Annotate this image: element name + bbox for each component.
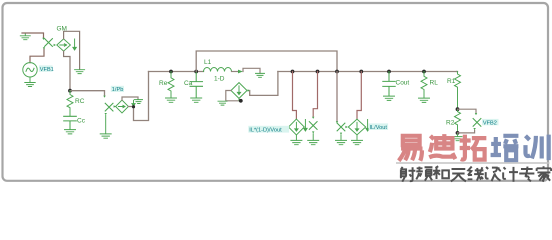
ground under D3 bbox=[291, 140, 302, 144]
multiplier X5 bbox=[337, 123, 345, 131]
watermark gray char 线 bbox=[468, 167, 484, 181]
watermark gray char 和 bbox=[433, 166, 449, 179]
wire X6 bottom back to R2 bottom bbox=[458, 131, 475, 133]
node dot Cout bbox=[387, 70, 391, 74]
capacitor Cc bbox=[64, 116, 77, 129]
border frame bbox=[3, 3, 549, 181]
svg-text:VFB1: VFB1 bbox=[40, 67, 54, 73]
wire jog to end ground bbox=[243, 68, 260, 73]
pin arrow X6 top bbox=[475, 113, 477, 115]
D3 current arrow bbox=[304, 120, 307, 132]
wire rail to X4 bbox=[313, 72, 317, 117]
dependent source D1 (1-D diamond) bbox=[231, 83, 247, 99]
wire left rail bbox=[149, 71, 204, 73]
resistor R2 bbox=[455, 109, 461, 133]
watermark divider line bbox=[396, 162, 550, 164]
node dot R2 bottom bbox=[456, 131, 460, 135]
svg-text:1/Pb: 1/Pb bbox=[112, 87, 124, 93]
svg-text:R1: R1 bbox=[447, 78, 456, 85]
resistor R1 bbox=[455, 72, 461, 110]
multiplier X1 bbox=[45, 39, 53, 47]
wire comp node to 1/Pb block bbox=[70, 91, 105, 96]
wire GM bottom to comp node bbox=[64, 51, 70, 91]
svg-text:L1: L1 bbox=[204, 59, 212, 66]
node dot divider bbox=[456, 107, 460, 111]
ground under Ca bbox=[191, 98, 202, 102]
pin arrow X5 to D4 bbox=[345, 126, 347, 128]
small ground right of D2 bbox=[135, 100, 143, 104]
capacitor Cout bbox=[383, 72, 395, 96]
pin arrow X1 bottom bbox=[43, 47, 45, 49]
svg-text:RL: RL bbox=[430, 80, 439, 87]
label 1/Pb bbox=[111, 86, 124, 92]
wire from G1 to multiplier X1 bbox=[22, 33, 44, 38]
node dot Re bbox=[169, 70, 173, 74]
D2 current arrow bbox=[132, 100, 135, 106]
wire D2 right to left rail bbox=[128, 72, 148, 121]
ground under R2 bbox=[453, 133, 462, 141]
wire right rail bbox=[278, 71, 457, 73]
multiplier X6 bbox=[473, 119, 481, 127]
ground under Cc bbox=[65, 130, 76, 134]
pin arrow X1 to GM bbox=[54, 44, 56, 46]
svg-text:Ca: Ca bbox=[184, 80, 193, 87]
resistor RL bbox=[421, 72, 427, 98]
watermark red char 易 bbox=[399, 136, 423, 161]
wire after L1 with arrow bbox=[232, 71, 241, 73]
wire X1 bottom to VFB1 bbox=[30, 49, 44, 63]
wire rail to D3 bbox=[293, 72, 297, 120]
watermark red char 迪 bbox=[429, 134, 455, 159]
node dot comp bbox=[68, 89, 72, 93]
wire D3 to ground bbox=[295, 135, 297, 140]
pin arrow into X1 top bbox=[42, 38, 44, 40]
svg-text:IL/Vout: IL/Vout bbox=[370, 125, 388, 131]
wire divider to X6 bbox=[458, 109, 477, 112]
watermark red char 拓 bbox=[460, 135, 487, 160]
pin arrow X2 bottom bbox=[105, 113, 107, 115]
D4 current arrow bbox=[366, 120, 369, 132]
bypass wire top bbox=[196, 51, 337, 72]
svg-text:1-D: 1-D bbox=[214, 75, 225, 82]
watermark gray char 家 bbox=[537, 166, 551, 181]
watermark gray char 专 bbox=[519, 167, 534, 182]
watermark blue char 培 bbox=[491, 136, 519, 160]
node dot Ca bbox=[194, 70, 198, 74]
pin arrow into X2 bbox=[103, 96, 105, 98]
ground under RL bbox=[419, 98, 430, 102]
pin arrow X5 bottom bbox=[340, 133, 342, 135]
watermark gray char 射 bbox=[400, 167, 415, 182]
dependent source D4 (IL/Vout) bbox=[348, 119, 365, 135]
ground under Cout bbox=[384, 96, 395, 100]
wire rail corner into R1 bbox=[457, 71, 458, 73]
watermark blue char 训 bbox=[525, 135, 548, 161]
drop to D3 bbox=[291, 70, 295, 74]
watermark gray char 天 bbox=[451, 169, 466, 181]
multiplier X4 bbox=[309, 122, 317, 130]
watermark gray char 计 bbox=[503, 167, 518, 182]
wire D1 bottom stub bbox=[238, 98, 240, 100]
wire GM top to ground bbox=[64, 31, 80, 69]
svg-text:VFB2: VFB2 bbox=[483, 120, 497, 126]
watermark gray char 频 bbox=[416, 167, 432, 181]
svg-text:Cc: Cc bbox=[77, 118, 86, 125]
drop to X5 bbox=[335, 70, 339, 74]
wire D1 right to right rail bbox=[250, 72, 278, 96]
inductor L1 bbox=[204, 68, 232, 72]
svg-text:Cout: Cout bbox=[396, 80, 410, 87]
wire D1 left to bottom bbox=[226, 91, 241, 101]
label IL/Vout bbox=[369, 123, 389, 130]
pin arrow X4 top bbox=[312, 117, 314, 119]
ground under D4 bbox=[352, 140, 363, 144]
ground at D1 bottom left bbox=[218, 101, 227, 105]
svg-text:IL*(1-D)/Vout: IL*(1-D)/Vout bbox=[249, 127, 282, 133]
GM current arrow bbox=[73, 39, 76, 50]
ground under X5 bbox=[336, 140, 347, 144]
label IL*(1-D)/Vout bbox=[248, 126, 289, 133]
pin arrow X6 bottom bbox=[473, 128, 475, 130]
source VFB1 (sine) bbox=[23, 63, 37, 83]
ground under X2 bbox=[100, 134, 111, 138]
ground at rail end bbox=[256, 73, 265, 77]
resistor Re bbox=[168, 72, 174, 98]
pin arrow D1 right bbox=[248, 89, 250, 91]
wire rail to X5 bbox=[336, 72, 338, 122]
multiplier X2 bbox=[105, 103, 113, 111]
ground under Re bbox=[166, 98, 177, 102]
ground under VFB1 bbox=[25, 83, 35, 87]
label VFB1 bbox=[39, 65, 53, 71]
wire X5 to ground bbox=[340, 135, 342, 140]
pin arrow X4 bottom bbox=[312, 131, 314, 133]
dependent source D3 (IL*(1-D)/Vout) bbox=[289, 119, 305, 135]
node dot D2 right bbox=[132, 105, 135, 108]
pin arrow X2 to D2 bbox=[114, 105, 116, 107]
wire X2 to ground bbox=[105, 116, 107, 134]
pin arrow X5 top bbox=[336, 121, 338, 123]
ground under X4 bbox=[308, 140, 319, 144]
dependent source GM (diamond) bbox=[57, 39, 71, 51]
ground G2 bbox=[75, 70, 85, 74]
wire rail to D4 bbox=[357, 72, 361, 120]
watermark gray char 设 bbox=[486, 167, 501, 181]
dependent source D2 (1/Pb diamond) bbox=[116, 100, 129, 113]
wire D4 to ground bbox=[356, 135, 358, 140]
capacitor Ca bbox=[190, 72, 203, 98]
wire D2 top to small ground bbox=[122, 97, 138, 100]
node dot RL bbox=[422, 70, 426, 74]
svg-text:Re: Re bbox=[159, 80, 168, 87]
wire X4 to ground bbox=[312, 134, 314, 140]
label VFB2 bbox=[482, 119, 499, 125]
node dot D1 bottom bbox=[239, 99, 243, 103]
svg-text:RC: RC bbox=[75, 98, 85, 105]
ground G1 (top-left) bbox=[20, 33, 30, 40]
resistor RC bbox=[67, 91, 73, 116]
drop to X4 bbox=[316, 70, 320, 74]
drop to D4 bbox=[359, 70, 363, 74]
svg-text:R2: R2 bbox=[446, 120, 455, 127]
